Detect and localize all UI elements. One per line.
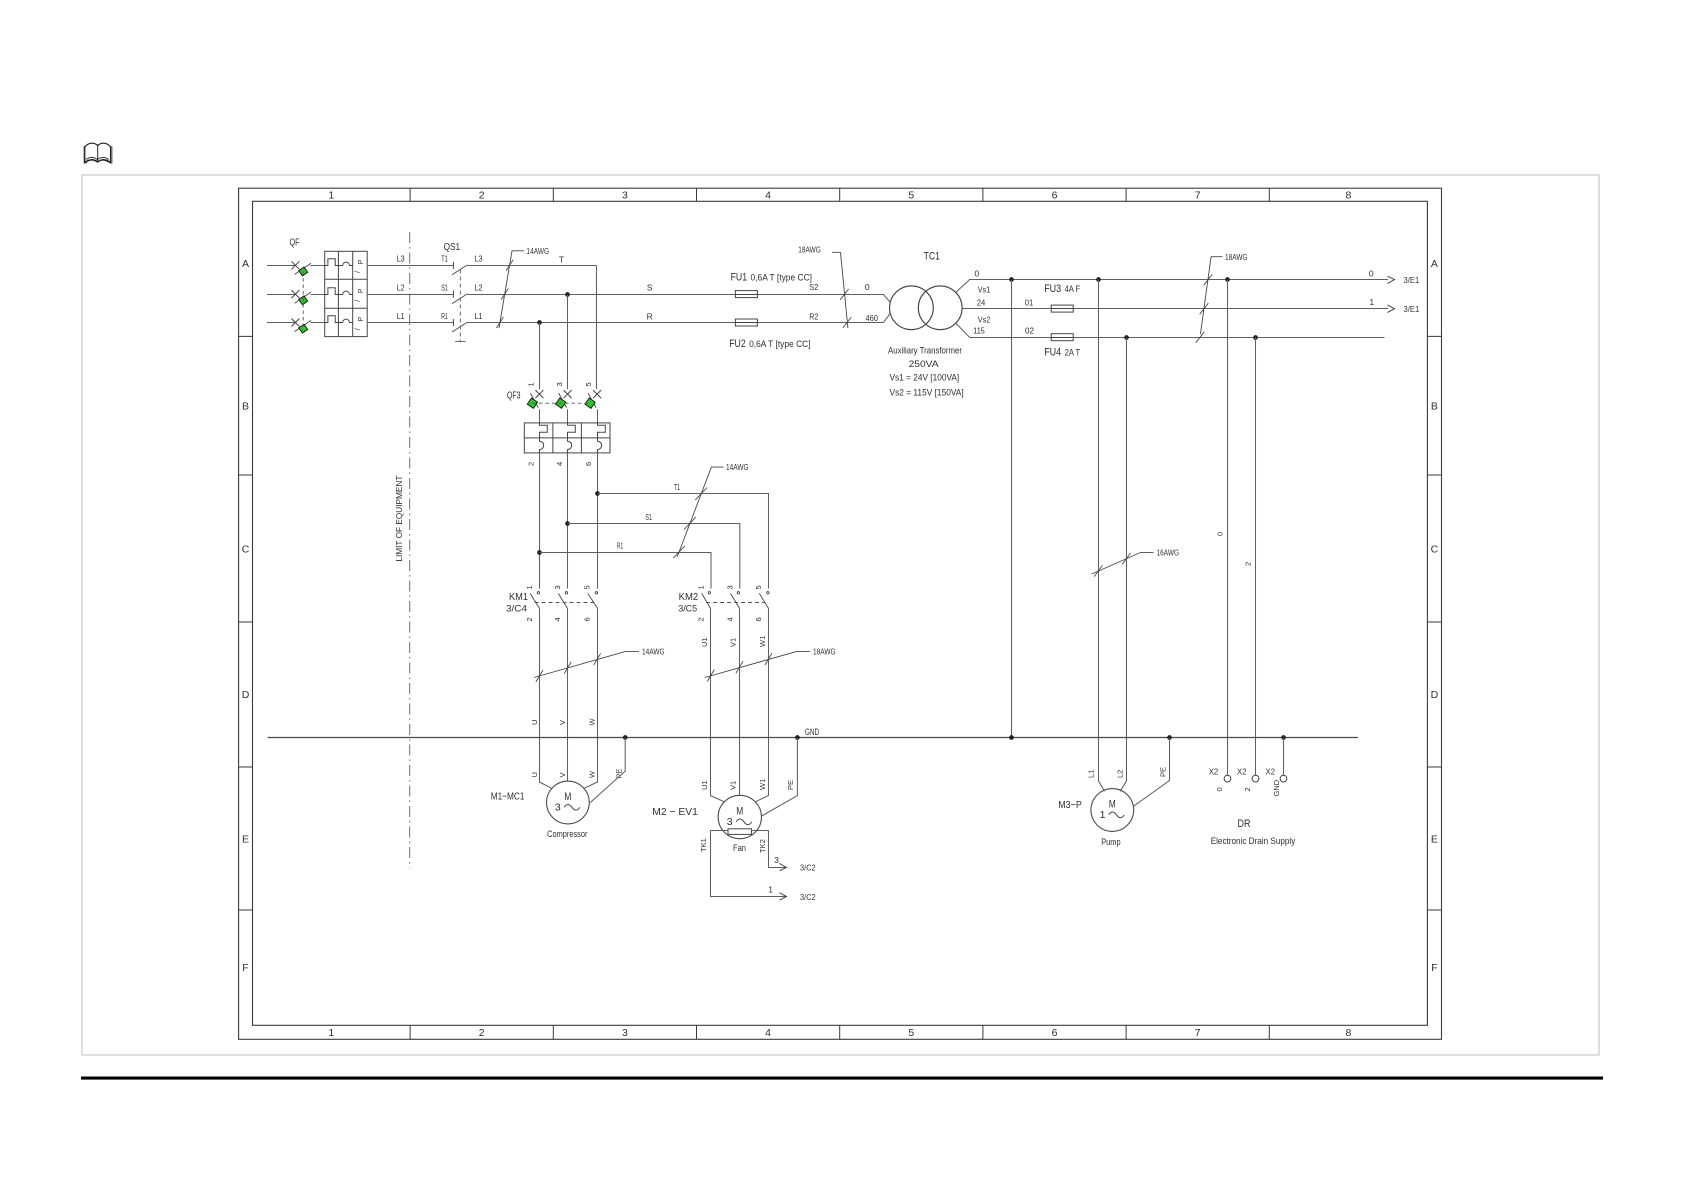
svg-text:/: / (355, 328, 362, 330)
svg-text:/: / (355, 271, 362, 273)
fuse FU1 (735, 291, 757, 298)
svg-text:V: V (558, 720, 567, 725)
svg-text:M1−MC1: M1−MC1 (491, 791, 525, 803)
svg-text:8: 8 (1345, 190, 1351, 202)
svg-text:5: 5 (908, 1027, 914, 1039)
svg-text:3: 3 (727, 816, 733, 828)
wire drop 0 to GND rail (1011, 280, 1013, 738)
svg-text:6: 6 (754, 617, 763, 621)
QF pole 2 thermal element symbol (325, 288, 339, 295)
svg-text:D: D (242, 689, 250, 701)
svg-text:W1: W1 (758, 779, 767, 790)
wire S2 FU1 to TC1 (757, 295, 890, 303)
svg-text:QF3: QF3 (507, 391, 521, 402)
wire 0 rail arrow to 3/E1 (1388, 276, 1395, 283)
svg-text:18AWG: 18AWG (1225, 252, 1248, 262)
QS1 pole 3 (452, 319, 467, 332)
svg-text:LIMIT OF EQUIPMENT: LIMIT OF EQUIPMENT (394, 476, 404, 562)
KM1 pole 3 contact (588, 592, 598, 609)
svg-text:W: W (588, 770, 597, 778)
KM2 pole 2 contact (731, 592, 740, 609)
svg-text:PE: PE (1159, 767, 1168, 777)
ground rail GND (268, 737, 1358, 739)
svg-text:0: 0 (1215, 787, 1224, 791)
QF pole 1 magnetic element symbol (338, 262, 352, 265)
QF3 pole 3 thermal element symbol (598, 423, 606, 438)
svg-text:16AWG: 16AWG (1157, 548, 1180, 558)
svg-text:QS1: QS1 (444, 242, 461, 253)
svg-text:1: 1 (525, 585, 534, 589)
junction GND at X2-GND (1281, 735, 1286, 740)
cable marker 18AWG at motor M2 (705, 651, 810, 681)
svg-text:R2: R2 (809, 312, 818, 322)
svg-text:L1: L1 (475, 311, 483, 321)
wire T drop to QF3 (596, 266, 598, 390)
junction S branch (565, 292, 570, 297)
svg-text:A: A (1431, 258, 1438, 270)
cable marker 16AWG at pump (1092, 552, 1154, 576)
motor M3 1-phase mark (1100, 809, 1125, 821)
junction 2 rail at X2-2 (1253, 335, 1258, 340)
svg-text:F: F (1431, 962, 1437, 974)
svg-text:L3: L3 (475, 254, 483, 264)
svg-text:3/E1: 3/E1 (1404, 275, 1420, 285)
svg-text:R1: R1 (617, 541, 624, 551)
terminal X2-GND circle (1280, 775, 1287, 782)
svg-text:3: 3 (555, 801, 561, 813)
QF3 trip linkage dashed line (532, 402, 590, 404)
outer page border (82, 175, 1599, 1055)
svg-text:1: 1 (527, 382, 536, 386)
KM1 pole 2 contact (558, 592, 567, 609)
svg-text:M3−P: M3−P (1058, 799, 1082, 811)
wire drop pump L2 (1120, 338, 1126, 792)
svg-text:3: 3 (555, 382, 564, 386)
wire L3 QS1 to corner (467, 265, 596, 267)
KM1 pole 1 contact (530, 592, 540, 609)
svg-text:6: 6 (1052, 190, 1058, 202)
svg-text:FU2: FU2 (729, 338, 746, 350)
wire U KM1 to motor M1 (540, 608, 553, 788)
svg-text:B: B (1431, 401, 1438, 413)
svg-text:Vs2 = 115V [150VA]: Vs2 = 115V [150VA] (890, 387, 964, 397)
svg-text:2: 2 (479, 1027, 485, 1039)
svg-text:5: 5 (754, 585, 763, 589)
svg-text:3/C4: 3/C4 (506, 604, 527, 615)
QF pole 2 magnetic element symbol (338, 291, 352, 294)
junction 0 rail at pump L1 (1096, 277, 1101, 282)
svg-text:3: 3 (622, 190, 628, 202)
wire R2 FU2 to TC1 (757, 313, 890, 322)
svg-text:GND: GND (805, 727, 819, 738)
wire QF3 pole1 down to KM1 (539, 453, 541, 589)
svg-text:2: 2 (1244, 562, 1253, 566)
QF thermal-magnetic unit box (325, 251, 368, 336)
svg-text:6: 6 (584, 462, 593, 466)
terminal X2-0 circle (1224, 775, 1231, 782)
QF3 pole 3 (585, 390, 601, 423)
wire T1 branch to KM2 (598, 494, 769, 589)
svg-text:Pump: Pump (1101, 837, 1120, 848)
svg-text:FU1: FU1 (731, 271, 748, 283)
svg-text:X2: X2 (1237, 767, 1247, 777)
svg-text:FU4: FU4 (1044, 346, 1061, 358)
QF3 thermal-magnetic unit box (524, 423, 610, 453)
junction GND at pump PE (1167, 735, 1172, 740)
junction 0 rail at PE column (1009, 277, 1014, 282)
svg-text:W: W (588, 718, 597, 726)
svg-text:X2: X2 (1209, 767, 1219, 777)
junction 2 rail at pump L2 (1124, 335, 1129, 340)
QF pole 1 thermal element symbol (325, 259, 339, 266)
svg-text:1: 1 (1369, 297, 1374, 307)
svg-text:3: 3 (622, 1027, 628, 1039)
wire S1 branch to KM2 (568, 524, 740, 589)
QF3 pole 2 thermal element symbol (568, 423, 576, 438)
frame row separator ticks (239, 336, 1442, 910)
svg-text:TK2: TK2 (758, 839, 767, 853)
wire L2 incoming segment (267, 294, 295, 296)
motor M2 thermal contact TK (728, 829, 752, 835)
svg-text:KM2: KM2 (679, 592, 699, 603)
wire QF3 pole2 down to KM1 (567, 453, 569, 589)
svg-text:4: 4 (765, 1027, 771, 1039)
svg-text:01: 01 (1025, 297, 1034, 307)
circuit breaker QF pole 3 (291, 319, 324, 334)
svg-text:0,6A T [type CC]: 0,6A T [type CC] (749, 339, 811, 349)
cable marker 18AWG at S2 R2 (832, 252, 851, 328)
wire PE to motor M3 (1134, 738, 1170, 807)
wire PE to motor M2 (762, 738, 798, 816)
svg-text:V1: V1 (729, 781, 738, 790)
svg-text:Auxiliary Transformer: Auxiliary Transformer (888, 346, 962, 356)
KM2 pole 3 contact (759, 592, 769, 609)
svg-text:M: M (564, 791, 571, 803)
QF3 pole 1 (527, 390, 543, 423)
wire V KM1 to motor M1 (567, 608, 569, 781)
svg-text:L2: L2 (1116, 770, 1125, 778)
motor M2 circle (718, 795, 761, 838)
svg-text:L2: L2 (475, 282, 483, 292)
KM2 linkage dashed line (706, 602, 765, 604)
svg-text:L2: L2 (397, 282, 405, 292)
svg-text:6: 6 (583, 617, 592, 621)
svg-text:7: 7 (1195, 190, 1201, 202)
svg-text:P: P (358, 317, 365, 322)
svg-text:8: 8 (1345, 1027, 1351, 1039)
column labels top (328, 190, 1351, 202)
svg-text:S: S (647, 282, 653, 292)
svg-text:T1: T1 (441, 254, 448, 264)
circuit breaker QF pole 2 (291, 290, 324, 305)
KM1 linkage dashed line (535, 602, 594, 604)
book icon (84, 143, 112, 163)
svg-text:GND: GND (1272, 779, 1281, 796)
svg-text:0: 0 (1369, 269, 1374, 279)
terminal X2-2 circle (1252, 775, 1259, 782)
svg-text:U1: U1 (700, 780, 709, 790)
wire L1 QF to QS1 (367, 322, 453, 324)
svg-text:V: V (558, 772, 567, 777)
svg-text:2A T: 2A T (1065, 347, 1081, 357)
svg-text:M: M (1109, 799, 1116, 811)
svg-text:R: R (647, 311, 653, 321)
drawing frame outer border (239, 188, 1442, 1039)
svg-text:0,6A T [type CC]: 0,6A T [type CC] (751, 272, 813, 282)
arrow TK1 to 3/C2 (780, 893, 787, 900)
wire S drop to QF3 (567, 295, 569, 390)
KM2 pole 1 contact (702, 592, 711, 609)
svg-text:2: 2 (1243, 787, 1252, 791)
QF pole 3 thermal element symbol (325, 316, 339, 323)
wire 0 rail from TC1 (956, 280, 1388, 293)
cable marker 14AWG at T1 S1 R1 (673, 467, 723, 558)
limit of equipment boundary line (394, 232, 410, 868)
QF pole 3 release symbols (355, 317, 365, 331)
wire 24 rail from TC1 to FU3 (962, 308, 1051, 310)
svg-text:2: 2 (527, 462, 536, 466)
transformer TC1 secondary winding (918, 286, 962, 330)
svg-text:P: P (358, 259, 365, 264)
svg-text:3: 3 (774, 855, 779, 865)
cable marker 14AWG at motor M1 (534, 651, 639, 682)
svg-text:D: D (1431, 689, 1439, 701)
svg-text:02: 02 (1025, 326, 1034, 336)
svg-text:U1: U1 (700, 637, 709, 647)
column labels bottom (328, 1027, 1351, 1039)
svg-text:14AWG: 14AWG (642, 647, 665, 657)
junction R branch (537, 320, 542, 325)
svg-text:Fan: Fan (733, 843, 746, 854)
junction 0 rail at X2-0 (1225, 277, 1230, 282)
junction S1 branch (565, 521, 570, 526)
svg-text:X2: X2 (1266, 767, 1276, 777)
wire L3 QF to QS1 (367, 265, 453, 267)
svg-text:24: 24 (977, 297, 986, 307)
wire QF3 pole3 down to KM1 (597, 453, 599, 589)
junction PE M2 on GND (795, 735, 800, 740)
wire drop X2-2 (1255, 338, 1257, 776)
wire TK2 to 3/C2 (769, 831, 787, 868)
svg-text:Vs2: Vs2 (978, 315, 991, 325)
svg-text:Vs1 = 24V [100VA]: Vs1 = 24V [100VA] (890, 373, 960, 383)
svg-text:M2 − EV1: M2 − EV1 (652, 806, 698, 818)
wire drop X2-0 (1227, 280, 1229, 776)
QF pole 1 release symbols (355, 259, 365, 273)
QF pole 3 magnetic element symbol (338, 319, 352, 322)
svg-text:3: 3 (725, 585, 734, 589)
svg-text:5: 5 (584, 382, 593, 386)
svg-text:L1: L1 (397, 311, 405, 321)
svg-text:2: 2 (697, 617, 706, 621)
svg-text:14AWG: 14AWG (527, 246, 550, 256)
svg-text:E: E (242, 834, 249, 846)
motor M3 circle (1091, 789, 1134, 832)
svg-text:3: 3 (553, 585, 562, 589)
svg-text:S1: S1 (645, 512, 652, 522)
QF pole 2 release symbols (355, 288, 365, 302)
wire 115 rail from TC1 to FU4 (956, 323, 1051, 337)
svg-text:1: 1 (697, 585, 706, 589)
fuse FU3 (1051, 305, 1073, 312)
svg-text:W1: W1 (758, 636, 767, 647)
junction T1 branch (595, 491, 600, 496)
wire TK1 to 3/C2 (711, 831, 787, 897)
svg-text:DR: DR (1238, 818, 1251, 830)
QF3 pole 1 thermal element symbol (540, 423, 548, 438)
svg-text:18AWG: 18AWG (798, 245, 821, 255)
wire drop X2-GND (1283, 738, 1285, 776)
svg-text:C: C (1431, 544, 1439, 556)
motor M1 circle (547, 781, 590, 824)
svg-text:3/C2: 3/C2 (800, 892, 816, 902)
svg-text:1: 1 (1100, 809, 1106, 821)
wire U1 KM2 to motor M2 (711, 608, 725, 801)
svg-text:250VA: 250VA (909, 359, 940, 369)
svg-text:Electronic Drain Supply: Electronic Drain Supply (1211, 836, 1296, 846)
QF3 pole 3 magnetic element symbol (598, 438, 602, 453)
wire W KM1 to motor M1 (583, 608, 597, 788)
svg-text:460: 460 (865, 313, 878, 323)
motor M2 3-phase mark (727, 816, 752, 828)
circuit breaker QF pole 1 (291, 261, 324, 276)
svg-text:18AWG: 18AWG (813, 647, 836, 657)
cable marker 14AWG at QS1 (496, 251, 524, 328)
svg-text:S2: S2 (809, 282, 818, 292)
svg-text:E: E (1431, 834, 1438, 846)
svg-text:S1: S1 (441, 282, 448, 292)
wire TK rect left stub (711, 830, 729, 832)
svg-text:T1: T1 (674, 482, 681, 492)
svg-text:5: 5 (908, 190, 914, 202)
svg-text:4A F: 4A F (1065, 284, 1081, 294)
wire V1 KM2 to motor M2 (739, 608, 741, 795)
svg-text:1: 1 (768, 884, 773, 894)
svg-text:KM1: KM1 (509, 592, 528, 603)
QF trip linkage dashed line (302, 272, 304, 329)
wire R drop to QF3 (539, 323, 541, 390)
QS1 pole 2 (452, 291, 467, 304)
svg-text:1: 1 (328, 190, 334, 202)
wire L1 incoming segment (267, 322, 295, 324)
svg-text:R1: R1 (441, 311, 448, 321)
wire L3 incoming segment (267, 265, 295, 267)
wire 1 rail FU3 to 3/E1 (1073, 308, 1388, 310)
transformer TC1 primary winding (890, 286, 934, 330)
wire L2 QF to QS1 (367, 294, 453, 296)
wire 1 rail arrow to 3/E1 (1388, 305, 1395, 312)
wire drop pump L1 (1099, 280, 1105, 792)
wire L1 QS1 to FU2 (467, 322, 735, 324)
row labels left (242, 258, 250, 974)
wire PE to motor M1 (590, 738, 625, 803)
svg-text:L3: L3 (397, 254, 405, 264)
svg-text:TC1: TC1 (924, 251, 940, 263)
wire W1 KM2 to motor M2 (755, 608, 768, 801)
svg-text:4: 4 (765, 190, 771, 202)
svg-text:4: 4 (725, 617, 734, 621)
svg-text:1: 1 (328, 1027, 334, 1039)
svg-text:Compressor: Compressor (547, 829, 587, 840)
svg-text:V1: V1 (729, 638, 738, 647)
frame column separator ticks (410, 188, 1269, 1039)
junction GND at PE column (1009, 735, 1014, 740)
svg-text:C: C (242, 544, 250, 556)
svg-text:7: 7 (1195, 1027, 1201, 1039)
svg-text:L1: L1 (1086, 770, 1095, 778)
svg-text:2: 2 (525, 617, 534, 621)
QF3 pole 1 magnetic element symbol (540, 438, 544, 453)
wire R1 branch to KM2 (540, 553, 712, 589)
arrow TK2 to 3/C2 (780, 863, 787, 870)
svg-text:3/C2: 3/C2 (800, 862, 816, 872)
svg-text:5: 5 (583, 585, 592, 589)
svg-text:0: 0 (1215, 532, 1224, 536)
svg-text:0: 0 (865, 282, 870, 292)
cable marker 18AWG top right (1196, 257, 1223, 343)
fuse FU2 (735, 319, 757, 326)
junction PE M1 on GND (623, 735, 628, 740)
row labels right (1431, 258, 1439, 974)
svg-text:0: 0 (975, 269, 980, 279)
svg-text:6: 6 (1052, 1027, 1058, 1039)
svg-text:B: B (242, 401, 249, 413)
svg-text:P: P (358, 288, 365, 293)
svg-text:4: 4 (555, 462, 564, 466)
QF3 pole 2 (556, 390, 572, 423)
svg-text:14AWG: 14AWG (726, 462, 749, 472)
svg-text:FU3: FU3 (1044, 283, 1061, 295)
svg-text:TK1: TK1 (699, 838, 708, 852)
svg-text:2: 2 (479, 190, 485, 202)
svg-text:A: A (242, 258, 249, 270)
svg-text:3/E1: 3/E1 (1404, 304, 1420, 314)
svg-text:QF: QF (290, 238, 300, 249)
junction R1 branch (537, 550, 542, 555)
svg-text:U: U (530, 772, 539, 777)
wire 2 rail FU4 to right (1073, 337, 1384, 339)
svg-text:U: U (530, 720, 539, 725)
svg-text:Vs1: Vs1 (978, 284, 991, 294)
svg-text:115: 115 (973, 326, 985, 336)
svg-text:PE: PE (786, 780, 795, 790)
wire TK rect right stub (752, 830, 769, 832)
svg-text:F: F (242, 962, 248, 974)
thick footer rule (81, 1077, 1603, 1080)
svg-text:M: M (736, 806, 743, 818)
svg-text:3/C5: 3/C5 (678, 604, 697, 615)
QF3 pole 2 magnetic element symbol (568, 438, 572, 453)
svg-text:/: / (355, 300, 362, 302)
wire L2 QS1 to FU1 (467, 294, 735, 296)
fuse FU4 (1051, 334, 1073, 341)
motor M1 3-phase mark (555, 801, 580, 813)
QS1 operating linkage dashed line with handle (455, 270, 466, 342)
drawing frame inner border (253, 201, 1428, 1025)
QS1 pole 1 (452, 262, 467, 275)
svg-text:T: T (559, 254, 564, 264)
svg-text:4: 4 (553, 617, 562, 621)
